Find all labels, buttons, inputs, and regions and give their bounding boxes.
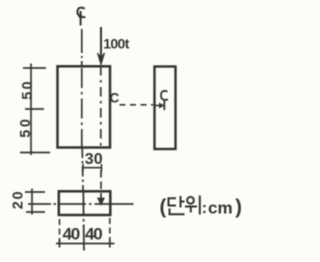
svg-text:): ) — [235, 197, 242, 219]
left dimension line 50/50 — [20, 64, 50, 156]
svg-text:(: ( — [160, 197, 167, 219]
svg-text:50: 50 — [20, 79, 36, 100]
load arrow 100t — [100, 27, 102, 57]
paper background — [0, 0, 253, 262]
dashed tie line C-C — [120, 104, 154, 106]
centerline symbol (top) — [77, 8, 85, 26]
30 dimension line with end ticks — [83, 164, 103, 172]
svg-text:cm: cm — [208, 199, 233, 218]
svg-text:40: 40 — [63, 225, 80, 244]
footing (plan) rectangle — [59, 191, 111, 215]
centerline continuation below column — [81, 148, 84, 190]
svg-text:20: 20 — [10, 190, 26, 210]
arrowhead at right centerline — [155, 105, 162, 107]
svg-text:50: 50 — [18, 116, 34, 137]
svg-text:100t: 100t — [103, 35, 130, 51]
load line continuation to footing — [100, 170, 102, 198]
footing horizontal centerline — [28, 203, 134, 205]
column (elevation) rectangle — [58, 66, 111, 147]
load point arrowhead in footing — [98, 198, 105, 205]
hangul 단 — [169, 196, 185, 214]
svg-text::: : — [202, 200, 207, 217]
hangul 위 — [185, 196, 200, 215]
unit note (단위:cm) — [160, 196, 242, 219]
centerline symbol in pier — [161, 91, 168, 110]
40/40 dimension line with ticks — [56, 240, 115, 248]
svg-text:40: 40 — [85, 225, 102, 244]
40/40 extension lines — [60, 218, 110, 247]
load line (dashed) through column — [100, 66, 102, 147]
centerline through footing to bottom — [82, 190, 85, 253]
svg-text:C: C — [110, 91, 120, 106]
column vertical centerline (dash-dot) — [81, 29, 83, 66]
20 dimension line — [25, 189, 45, 215]
pier (side view) rectangle — [155, 67, 176, 150]
svg-text:30: 30 — [85, 151, 103, 168]
